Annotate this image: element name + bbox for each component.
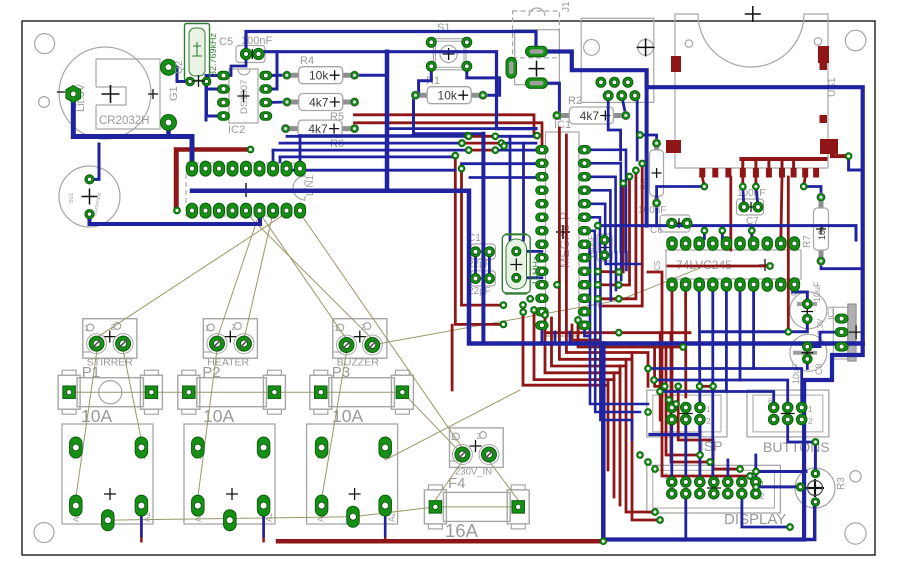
crystal Q2 [185, 24, 210, 81]
card holder US1 silk [675, 14, 828, 168]
wire red display vert 3 [619, 366, 622, 505]
pads R4 [282, 71, 291, 80]
pads relay K2 [192, 437, 205, 458]
svg-text:10k: 10k [817, 225, 827, 240]
resistor R7 silk [819, 197, 824, 210]
pads BUTTONS [768, 402, 779, 413]
pads P3 [337, 335, 357, 355]
wire red US1 to via [832, 153, 849, 156]
buzzer SG1 silk [59, 166, 120, 227]
wire red center pair 1 [559, 128, 632, 359]
wire blue C5 left down [231, 54, 246, 76]
connector P1 STIRRER silk [83, 319, 137, 359]
wire blue main right loop [537, 52, 863, 540]
wire blue S1 br [467, 66, 500, 95]
wire blue ISP col down 2 [684, 420, 687, 483]
capacitor C7 silk [737, 199, 764, 215]
airwire P2 to K2 [198, 350, 217, 498]
wire red pad stub 2 [755, 177, 758, 187]
capacitor C5 silk [236, 46, 265, 63]
US1 smd pad left bottom / R8 [666, 140, 681, 153]
airwire P1 to K1 [76, 350, 97, 498]
wire blue G1 bottom [166, 123, 171, 137]
airwire F3 to F4 [402, 392, 462, 454]
airwire LIN1 to F4 [300, 213, 462, 448]
svg-text:DISPLAY: DISPLAY [724, 511, 786, 528]
wire blue top bus [246, 32, 536, 55]
wire red R6 to IC1 [355, 123, 543, 150]
wire blue zoneA h1 [390, 127, 536, 130]
pads Q1 [512, 247, 521, 256]
airwire P3 up right [372, 268, 700, 345]
wire red isp via row [700, 385, 714, 388]
pad G1 negative [66, 86, 81, 103]
wire red A2 stub K2 [262, 516, 265, 541]
connector silk box near J1 [581, 18, 654, 102]
US1 smd pad small 1 [820, 62, 828, 70]
wire red display vert 4 [613, 373, 616, 497]
wire blue LIN1 mid bus [192, 191, 863, 344]
wire blue R8 up [640, 135, 657, 143]
svg-text:22pF: 22pF [468, 259, 491, 270]
connector DISPLAY silk [647, 465, 781, 513]
mounting hole bottom-right [845, 523, 866, 544]
airwire fuse row [69, 391, 402, 393]
wire blue R2 stub [622, 96, 626, 116]
wire blue inner verticals [509, 136, 512, 250]
wire red battery to LIN1 via [175, 152, 179, 211]
wire red C6 corner 1 [648, 272, 750, 476]
wire blue via line [300, 134, 468, 137]
resistor R8 silk [654, 143, 659, 152]
pad Q2 pin2 [202, 77, 211, 86]
wire red through 74LVC245 [668, 265, 770, 268]
pad Q2 pin1 [186, 77, 195, 86]
svg-text:1: 1 [205, 324, 210, 333]
wire red jumper row3 [469, 149, 496, 152]
svg-text:2: 2 [231, 323, 236, 332]
pads R1 [411, 91, 420, 100]
pads cluster near J1 [596, 77, 606, 87]
pads C3 [600, 235, 609, 244]
pads R5 [282, 97, 291, 106]
wire blue Q2 to IC2 [207, 82, 224, 117]
svg-text:1: 1 [808, 405, 813, 414]
svg-text:R2: R2 [568, 95, 582, 107]
wire blue buttons feed 3 [660, 392, 774, 408]
mounting hole top-left [35, 34, 55, 54]
wire blue A2 stubs [140, 516, 143, 536]
power jack J1 silk [513, 11, 560, 58]
wire red display vert 2 [626, 359, 655, 512]
hole small left [39, 97, 50, 108]
hole small right [850, 471, 861, 482]
pads P2 [207, 334, 227, 354]
pads R3 [811, 469, 819, 477]
wire blue zoneA h5 [280, 155, 455, 158]
wire blue cluster down 2 [635, 96, 637, 160]
wire blue second bus [259, 52, 537, 129]
wire red pad13 down [781, 177, 782, 244]
wire blue R3 connections [814, 442, 817, 474]
wire blue C8 to buttons line [806, 359, 809, 369]
svg-text:DS1307: DS1307 [239, 80, 250, 114]
wire blue ISP col down 1 [670, 420, 673, 483]
wire red 74LVC down 1 [671, 285, 674, 408]
pads fuse F3 [315, 386, 328, 399]
connector P3 BUZZER silk [333, 319, 387, 359]
wire red via verticals to jumpers [619, 183, 623, 272]
pads fuse 16A [429, 501, 442, 514]
wire blue IC2 pin to C5 [266, 52, 277, 89]
resistor R4 silk [287, 73, 301, 78]
wire blue Q1 to IC1 [516, 250, 542, 253]
regulator IC3 silk [833, 307, 848, 359]
wire red center pair 2 [566, 135, 648, 386]
svg-text:Q2: Q2 [174, 60, 185, 74]
capacitor C3 silk [597, 234, 612, 261]
wire blue C1 C2 links [474, 252, 477, 279]
relay silk [307, 424, 398, 524]
svg-text:2: 2 [706, 417, 711, 426]
pads C8 [803, 342, 813, 352]
wire red mid horizontal [545, 331, 690, 334]
svg-text:4k7: 4k7 [309, 96, 329, 110]
wire blue R1 left down [414, 95, 484, 134]
wire red LIN1 via down 2 [462, 169, 504, 306]
svg-text:22pF: 22pF [468, 286, 491, 297]
wire blue via156 link [849, 156, 862, 170]
wire blue zoneA h4 [273, 149, 469, 152]
connector ISP silk [647, 390, 727, 437]
pads relay K1 [70, 437, 83, 458]
wire blue ISP col down 3 [699, 420, 702, 483]
hole small near US1 left [685, 40, 692, 47]
svg-text:1: 1 [84, 324, 89, 333]
svg-text:R3: R3 [836, 477, 847, 490]
wire blue R4 junction [355, 74, 388, 77]
svg-text:R4: R4 [300, 55, 314, 67]
wire blue IC2 to R5 [266, 101, 287, 104]
wire red staircase 1 [523, 305, 608, 385]
US1 contact risers [741, 159, 744, 168]
capacitor C8 silk [790, 334, 827, 371]
wire red jumper row1 [469, 135, 496, 138]
wire blue 74LVC to display 1 [713, 285, 714, 483]
vias [247, 146, 254, 153]
wire blue ISP gnd bar [650, 420, 700, 435]
wire blue display feed 2 [727, 460, 730, 482]
wire red via jumper a [598, 270, 619, 273]
resistor R5 silk [287, 100, 301, 105]
wire red R5 to IC1 [355, 115, 537, 137]
US1 smd pad right bottom [820, 139, 838, 154]
svg-text:R7: R7 [802, 235, 813, 248]
wire blue zoneB staircase [585, 150, 627, 252]
svg-text:4k7: 4k7 [308, 122, 328, 136]
svg-text:2: 2 [808, 417, 813, 426]
wire blue IC3 mid link [807, 332, 841, 347]
svg-text:2: 2 [477, 432, 482, 441]
switch S1 silk [433, 39, 466, 70]
wire blue SG1 bottom [90, 211, 261, 224]
svg-text:10uF: 10uF [791, 363, 801, 384]
wire blue R8 bottom stub [655, 203, 658, 226]
pads C7 [739, 202, 749, 212]
wire red pad stub 3 [804, 177, 806, 187]
wire blue zoneB h-links [606, 252, 640, 264]
airwire F4 to 16A left [435, 461, 462, 500]
svg-text:G1: G1 [168, 86, 180, 101]
wire blue R7 bottom [821, 261, 863, 269]
crystal Q1 [502, 235, 530, 293]
airwire LIN1 to P3 pin1 [260, 213, 347, 339]
wire blue zoneB lower fan [590, 252, 648, 404]
svg-text:1: 1 [706, 405, 711, 414]
wire blue buttons to R3 via [788, 420, 816, 443]
wire blue 74LVC pad3 down [698, 285, 702, 408]
wire red staircase 2 [534, 310, 614, 380]
svg-text:C5: C5 [219, 36, 233, 48]
pads P1 [87, 334, 107, 354]
svg-text:P3: P3 [332, 364, 350, 381]
pads IC2 [218, 71, 230, 80]
wire blue IC2 left stubs [206, 74, 224, 77]
airwire LIN1 to P1 [99, 213, 287, 336]
wire red A2 stub K1 [140, 516, 143, 541]
capacitor C2 silk [471, 271, 496, 286]
pad G1 top [161, 59, 177, 75]
wire blue battery neg [73, 94, 192, 169]
wire blue R7 top [804, 187, 821, 198]
wire red isp right [678, 386, 740, 469]
wire red staircase 4 [578, 320, 683, 347]
svg-text:CR2032H: CR2032H [99, 115, 150, 127]
resistor R6 silk [286, 126, 300, 131]
pads R8 [652, 139, 661, 148]
wire blue cluster down 1 [608, 96, 620, 160]
IC1 MEGA8-P silk [546, 132, 580, 336]
relay silk [62, 424, 153, 524]
wire red pad long 1 [729, 177, 732, 250]
svg-text:16MHz: 16MHz [531, 256, 541, 285]
mounting hole bottom-left [34, 523, 54, 543]
airwire K3 right [385, 390, 520, 460]
wire red display vert 5 [607, 380, 610, 470]
IC5 74LVC245 silk [666, 250, 801, 279]
pads J1 [526, 46, 548, 57]
wire blue zoneA vert [481, 134, 485, 344]
svg-text:P1: P1 [82, 364, 100, 381]
IC2 DS1307 silk [229, 69, 258, 123]
wire blue SG1 top [90, 144, 100, 179]
wire blue gnd branch [385, 52, 390, 191]
wire blue zoneA h3 [280, 142, 462, 145]
connector BUTTONS silk [747, 390, 829, 437]
airwire LIN1 to P3 pin2 [246, 213, 372, 339]
pads IC3 [835, 314, 848, 323]
pads R2 [552, 111, 561, 120]
capacitor C1 silk [471, 244, 496, 259]
svg-text:P2: P2 [202, 364, 220, 381]
pads C2 [471, 274, 481, 284]
wire red display vert 1 [632, 353, 660, 521]
wire blue 74LVC to C4 [793, 285, 808, 305]
airwire P3 to K3 [322, 352, 347, 499]
wire red via jumper c [598, 297, 619, 300]
pads 74LVC245 bottom row [667, 278, 678, 292]
fuse holder 16A silk [443, 492, 510, 521]
airwire LIN1 to P2 pin1 [217, 213, 260, 339]
wire blue long mid bus [598, 226, 856, 240]
airwire P1 to K1 12 [123, 350, 141, 440]
pads C6 [667, 218, 677, 228]
wire red LIN1 via down 1 [455, 156, 503, 325]
pads fuse F2 [183, 386, 196, 399]
US1 contact pads [699, 168, 705, 178]
resistor R2 silk [557, 113, 571, 118]
wire red US1 bus [741, 157, 825, 161]
wire blue via186 line [657, 187, 705, 204]
pad C5 2 [253, 48, 264, 59]
svg-text:4k7: 4k7 [580, 109, 600, 123]
wire blue zoneA h6 [286, 169, 455, 172]
airwire F4 to 16A right [489, 461, 518, 500]
wire red pad long 2 [787, 177, 790, 332]
pads IC1 MEGA8-P [536, 146, 549, 155]
svg-text:10k: 10k [309, 69, 329, 83]
wire blue C4 bottom long [700, 319, 807, 332]
pads C1 [471, 247, 481, 257]
pads 74LVC245 top row [667, 237, 678, 251]
svg-text:IC3: IC3 [826, 306, 836, 320]
wire blue S1 bl to R1 [419, 66, 432, 95]
connector F4 230V_IN silk [450, 428, 504, 468]
battery holder G1 silk [59, 47, 151, 139]
capacitor C4 silk [790, 292, 827, 329]
wire blue display underline [742, 494, 790, 527]
capacitor C6 silk [660, 215, 690, 232]
pads fuse F1 [63, 386, 76, 399]
svg-text:10k: 10k [438, 89, 458, 103]
relay silk [184, 424, 275, 524]
wire blue display feed 3 [754, 455, 757, 482]
wire red 74LVC down 2 [684, 285, 687, 398]
US1 smd pad small 2 [820, 115, 828, 123]
wire blue LIN1 up stubs [272, 150, 275, 162]
wire blue buttons feed 2 [654, 380, 788, 408]
wire red A2 stub K3 [384, 516, 387, 541]
wire red via jumper b [598, 283, 619, 286]
wire red battery area [176, 150, 251, 207]
hole small near US1 right [814, 38, 821, 45]
svg-text:IC2: IC2 [228, 124, 245, 136]
pads S1 [426, 37, 436, 47]
wire red bottom bus [278, 539, 603, 544]
pads F4 230V_IN [452, 445, 472, 465]
wire red jumper row2 [462, 142, 502, 145]
wire blue C7 via links [743, 187, 744, 208]
resistor R1 silk [416, 93, 430, 98]
svg-text:IC1: IC1 [554, 119, 571, 131]
wire blue zoneA h2 [287, 135, 469, 138]
pad C5 1 [240, 48, 251, 59]
svg-text:32.769kHz: 32.769kHz [208, 32, 218, 76]
svg-text:16A: 16A [445, 520, 479, 541]
airwire relay row [108, 507, 518, 520]
US1 smd pad right top [818, 46, 829, 63]
wire red ISP area verticals [655, 344, 665, 387]
connector P2 HEATER silk [203, 319, 257, 359]
svg-text:J1: J1 [561, 1, 572, 12]
fuse holder 10A silk [77, 378, 143, 407]
airwire LIN1 to P2 pin2 [244, 213, 273, 339]
pads DISPLAY [667, 477, 678, 488]
pads R6 [281, 124, 290, 133]
wire red staircase 3 [545, 315, 620, 373]
pads C4 [803, 299, 813, 309]
pads R7 [816, 193, 825, 202]
svg-text:SG1: SG1 [69, 193, 75, 203]
pads ISP [667, 402, 678, 413]
wire blue via stubs to 74LVC [703, 231, 706, 239]
wire blue J1 pad2 down [537, 83, 560, 118]
mounting hole top-right [845, 30, 866, 51]
wire red staircase 5 [552, 318, 627, 366]
pad G1 bottom [161, 115, 177, 131]
pads relay K3 [315, 437, 328, 458]
svg-text:C8: C8 [814, 363, 824, 375]
wire red pad stub 1 [741, 177, 744, 187]
trimmer R3 silk [795, 468, 835, 508]
wire blue IC2 to R4 [266, 74, 287, 77]
US1 smd pad left top [671, 56, 681, 72]
pads LIN1 bottom row [187, 203, 198, 218]
pads SG1 [85, 175, 94, 184]
svg-text:10A: 10A [81, 406, 112, 426]
wire blue display right col [684, 494, 687, 540]
pads LIN1 top row [187, 161, 198, 176]
wire blue bus spur to R3 [804, 502, 815, 540]
wire blue G1 top to Q2 [169, 67, 191, 81]
connector LIN1 silk [186, 163, 305, 216]
wire blue buttons feed 1 [648, 369, 802, 408]
wire blue J1 gnd vertical [645, 87, 649, 225]
wire red pad stub 4 [702, 177, 704, 187]
fuse holder 10A silk [197, 378, 267, 407]
wire red staircase 6 [572, 325, 600, 340]
wire blue IC1 bottom drops [541, 325, 544, 343]
svg-text:10uF: 10uF [812, 281, 822, 302]
fuse holder 10A silk [329, 378, 395, 407]
wire red left drop [451, 325, 454, 390]
